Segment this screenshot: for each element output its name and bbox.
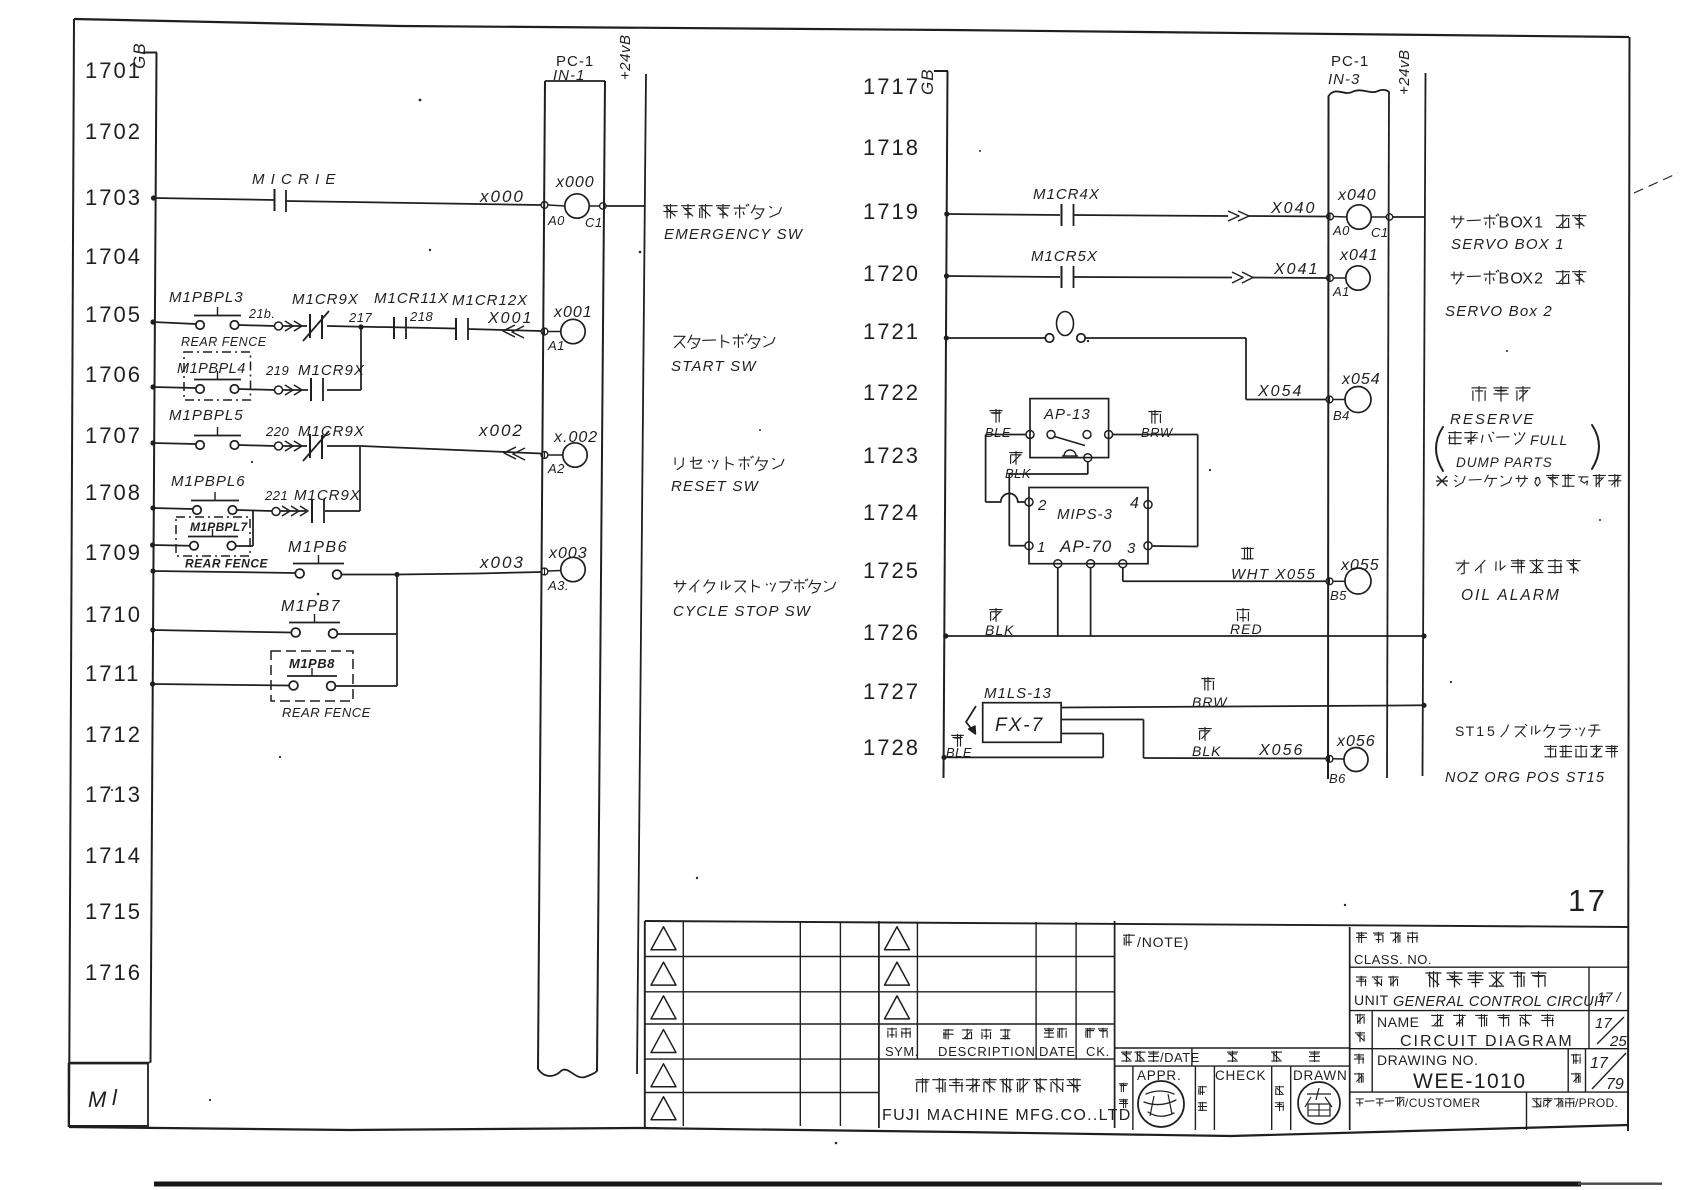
svg-text:M1CR9X: M1CR9X — [298, 423, 365, 440]
branch wire 1711 to 1710 node — [396, 634, 398, 686]
annotation start switch — [671, 334, 775, 375]
svg-text:1713: 1713 — [85, 782, 142, 807]
svg-text:A3.: A3. — [547, 578, 569, 593]
scratch artifact top-right margin — [1634, 173, 1678, 193]
svg-text:X001: X001 — [487, 310, 533, 327]
right +24VB supply line — [1423, 73, 1426, 776]
svg-text:PC-1: PC-1 — [1331, 53, 1369, 70]
pushbutton M1PBPL4 (dashed enclosure) — [177, 352, 251, 400]
chevron arrows X002 — [504, 447, 525, 460]
wire rung 1721 — [944, 335, 1246, 340]
input terminal X041 — [1327, 247, 1379, 299]
input terminal X040 — [1327, 187, 1424, 240]
svg-text:B: B — [1499, 270, 1510, 287]
svg-text:MIPS-3: MIPS-3 — [1057, 506, 1113, 523]
wire color label BRW (1727) — [1192, 677, 1228, 710]
wire color label BLE (AP-13) — [985, 409, 1011, 440]
svg-text:C1: C1 — [585, 215, 603, 230]
svg-text:x003: x003 — [548, 545, 588, 562]
svg-text:A1: A1 — [547, 338, 565, 353]
wire rung 1726 BLK/RED common — [943, 633, 1426, 638]
left bus GB rail — [143, 53, 157, 1063]
annotation servo box 1 — [1451, 214, 1587, 253]
loop switch symbol rung 1721 — [1045, 312, 1085, 343]
svg-text:4: 4 — [1130, 495, 1139, 512]
svg-text:M1CR9X: M1CR9X — [294, 487, 361, 504]
revision header DESCRIPTION — [938, 1029, 1036, 1059]
pushbutton M1PBPL3 — [169, 289, 267, 349]
svg-text:SERVO Box 2: SERVO Box 2 — [1445, 303, 1553, 320]
revision triangles right column — [885, 927, 910, 1019]
svg-text:M1PBPL6: M1PBPL6 — [171, 473, 246, 490]
svg-text:CLASS. NO.: CLASS. NO. — [1354, 952, 1432, 967]
date row — [1115, 1048, 1350, 1066]
right rung numbers 1717-1728 — [863, 74, 920, 760]
pushbutton M1PB6 — [288, 539, 348, 579]
svg-text:EMERGENCY SW: EMERGENCY SW — [664, 226, 804, 243]
svg-text:BRW: BRW — [1141, 425, 1174, 440]
NC contact M1CR9X rung 1707 — [298, 423, 365, 461]
svg-text:DUMP PARTS: DUMP PARTS — [1456, 455, 1553, 470]
wire MIPS-3 pin drops to 1726 — [1058, 568, 1091, 636]
svg-text:M1PB7: M1PB7 — [281, 598, 341, 615]
svg-text:M1CR4X: M1CR4X — [1033, 186, 1100, 203]
svg-text:CIRCUIT DIAGRAM: CIRCUIT DIAGRAM — [1400, 1033, 1574, 1050]
revision table right — [879, 921, 1115, 1128]
input terminal X056 — [1326, 733, 1376, 786]
svg-text:x000: x000 — [555, 174, 595, 191]
svg-text:221: 221 — [264, 488, 288, 503]
svg-text:X040: X040 — [1270, 200, 1316, 217]
limit switch arrow — [966, 706, 976, 734]
svg-text:+24vB: +24vB — [617, 35, 634, 80]
chevron arrows X001 — [503, 325, 524, 338]
chevron arrows rung 1720 — [1232, 272, 1253, 283]
PC-1 IN-3 module box — [1328, 90, 1389, 779]
right bus label GB — [918, 68, 937, 95]
wire rung 1710 — [150, 627, 397, 634]
title block outer lines — [645, 921, 1629, 1128]
branch wire 1708 to 1707 — [359, 447, 361, 511]
svg-text:CYCLE STOP SW: CYCLE STOP SW — [673, 603, 812, 620]
unit name cell — [1350, 967, 1629, 1010]
annotation cycle stop switch — [673, 579, 836, 620]
svg-text:REAR FENCE: REAR FENCE — [282, 705, 371, 720]
svg-text:DRAWING NO.: DRAWING NO. — [1377, 1052, 1478, 1068]
svg-text:1716: 1716 — [85, 960, 142, 985]
input terminal X003 — [541, 545, 588, 593]
annotation reset switch — [671, 456, 784, 495]
annotation nozzle clutch origin — [1445, 723, 1618, 786]
svg-text:x002: x002 — [478, 421, 524, 440]
wire junction circle 221 — [264, 488, 288, 516]
svg-text:1727: 1727 — [863, 679, 920, 704]
svg-text:1705: 1705 — [85, 302, 142, 327]
input terminal X054 — [1326, 371, 1381, 423]
contact M1CRIE — [252, 171, 336, 212]
chevron arrows rung 1707 — [285, 441, 302, 451]
svg-text:AP-70: AP-70 — [1059, 537, 1112, 556]
revision triangles left column — [651, 927, 676, 1120]
wire junction circle 21b — [248, 307, 283, 330]
svg-text:O: O — [1510, 270, 1522, 287]
svg-text:S: S — [1455, 723, 1464, 739]
svg-text:M1LS-13: M1LS-13 — [984, 685, 1052, 702]
svg-text:1721: 1721 — [863, 319, 920, 344]
annotation servo box 2 — [1445, 270, 1586, 320]
branch wire 1706 to 1705 — [360, 327, 362, 390]
svg-text:1718: 1718 — [863, 135, 920, 160]
svg-text:+24vB: +24vB — [1396, 50, 1413, 95]
NC contact M1CR9X rung 1705 — [292, 291, 359, 341]
svg-text:3: 3 — [1127, 540, 1136, 557]
NO contact M1CR11X — [374, 290, 449, 339]
svg-text:DESCRIPTION: DESCRIPTION — [938, 1044, 1036, 1059]
svg-text:x056: x056 — [1336, 733, 1376, 750]
wire BLE net AP-13 to MIPS-3 pin2 — [986, 435, 1026, 503]
chevron arrows rung 1705 — [285, 321, 302, 331]
svg-text:B5: B5 — [1330, 588, 1347, 603]
wire rung 1707 — [150, 440, 541, 453]
svg-text:M1PBPL5: M1PBPL5 — [169, 407, 244, 424]
input terminal X000 — [541, 174, 645, 230]
wire 1721 drop to X054 — [1246, 338, 1326, 400]
note area — [1115, 934, 1350, 1048]
svg-text:A2: A2 — [547, 461, 565, 476]
terminal box M1 — [69, 1064, 148, 1126]
chevron arrows rung 1706 — [285, 385, 302, 395]
svg-text:/NOTE): /NOTE) — [1137, 934, 1189, 950]
svg-text:B4: B4 — [1333, 408, 1350, 423]
limit switch box FX-7 — [983, 685, 1061, 742]
input terminal X055 — [1326, 557, 1380, 603]
svg-text:5: 5 — [1487, 723, 1495, 739]
NO contact M1CR4X — [1033, 186, 1100, 226]
svg-text:M1PBPL4: M1PBPL4 — [177, 361, 246, 377]
wire color label BLK (1726) — [985, 608, 1014, 638]
wire color label BLE (1728) — [946, 734, 972, 760]
svg-text:M1CR9X: M1CR9X — [292, 291, 359, 308]
annotation reserve — [1436, 386, 1599, 471]
svg-text:M1CR11X: M1CR11X — [374, 290, 449, 307]
svg-text:FULL: FULL — [1530, 432, 1568, 448]
svg-text:BLE: BLE — [946, 745, 972, 760]
svg-text:NAME: NAME — [1377, 1014, 1419, 1030]
svg-text:FX-7: FX-7 — [995, 715, 1044, 736]
svg-text:17: 17 — [1568, 883, 1607, 918]
svg-text:OIL ALARM: OIL ALARM — [1461, 587, 1561, 604]
wire rung 1719 — [944, 211, 1326, 216]
svg-text:x055: x055 — [1340, 557, 1380, 574]
svg-text:x040: x040 — [1337, 187, 1377, 204]
wire rung 1720 — [944, 273, 1326, 278]
svg-text:M1CR12X: M1CR12X — [452, 292, 528, 309]
right +24VB label — [1396, 50, 1413, 95]
wire WHT net MIPS-3 to X055 — [1123, 568, 1326, 582]
svg-text:25: 25 — [1609, 1033, 1627, 1050]
svg-text:X054: X054 — [1257, 383, 1303, 400]
svg-text:RED: RED — [1230, 621, 1263, 637]
company name Fuji Machine — [882, 1078, 1132, 1124]
svg-text:1710: 1710 — [85, 602, 142, 627]
svg-text:1712: 1712 — [85, 722, 142, 747]
svg-text:1: 1 — [1476, 723, 1484, 739]
svg-text:WHT X055: WHT X055 — [1231, 566, 1316, 583]
svg-text:M1PBPL3: M1PBPL3 — [169, 289, 244, 306]
svg-text:17 /: 17 / — [1597, 989, 1622, 1005]
svg-text:1722: 1722 — [863, 380, 920, 405]
wire color label BLK (1728) — [1192, 727, 1221, 759]
node 217 branch junction — [348, 310, 372, 330]
revision header SYM — [885, 1028, 919, 1059]
revision header CK — [1085, 1028, 1110, 1059]
svg-text:CHECK: CHECK — [1215, 1068, 1266, 1083]
svg-text:/CUSTOMER: /CUSTOMER — [1405, 1096, 1480, 1110]
chevron arrows rung 1719 — [1228, 211, 1249, 221]
svg-text:17: 17 — [1595, 1015, 1612, 1032]
svg-text:17: 17 — [1590, 1055, 1609, 1072]
svg-text:1: 1 — [1534, 214, 1543, 231]
svg-text:1719: 1719 — [863, 199, 920, 224]
wire branch M1PBPL7 — [150, 511, 253, 548]
svg-text:X: X — [1522, 270, 1533, 287]
svg-text:1708: 1708 — [85, 480, 142, 505]
wire color label BLK (AP-13) — [1005, 451, 1032, 481]
input terminal X001 — [541, 304, 593, 353]
svg-text:WEE-1010: WEE-1010 — [1413, 1070, 1527, 1093]
svg-text:1714: 1714 — [85, 843, 142, 868]
svg-text:IN-1: IN-1 — [553, 67, 585, 84]
left +24VB label — [617, 35, 634, 80]
left rung numbers 1701-1716 — [85, 58, 142, 985]
svg-text:79: 79 — [1606, 1076, 1624, 1093]
svg-text:FUJI MACHINE MFG.CO..LTD: FUJI MACHINE MFG.CO..LTD — [882, 1107, 1132, 1124]
pushbutton M1PBPL5 — [169, 407, 244, 449]
stamp seal APPR — [1138, 1081, 1184, 1127]
svg-text:1717: 1717 — [863, 74, 920, 99]
svg-text:1: 1 — [1037, 539, 1045, 556]
pushbutton M1PB8 (dashed enclosure) — [271, 651, 371, 720]
svg-text:218: 218 — [409, 309, 433, 324]
wire rung 1709 — [150, 568, 541, 574]
svg-text:1726: 1726 — [863, 620, 920, 645]
NO contact M1CR9X rung 1706 — [298, 362, 365, 401]
svg-text:219: 219 — [265, 363, 289, 378]
svg-text:x041: x041 — [1339, 247, 1379, 264]
NO contact M1CR12X — [452, 292, 528, 340]
wire BRW net AP-13 to MIPS-3 pin3 — [1113, 435, 1198, 547]
svg-text:B: B — [1499, 214, 1510, 231]
svg-text:1706: 1706 — [85, 362, 142, 387]
svg-text:/DATE: /DATE — [1160, 1050, 1200, 1065]
wire color label RED (1726) — [1230, 608, 1263, 637]
left line-number column box — [69, 1062, 149, 1064]
scan specks — [111, 99, 1601, 1145]
pushbutton M1PB7 — [281, 598, 341, 638]
wire rung 1711 — [150, 681, 397, 686]
svg-text:2: 2 — [1037, 497, 1047, 514]
PC-1 IN-1 label — [553, 53, 594, 84]
sensor box MIPS-3 / AP-70 — [1025, 488, 1152, 568]
approval stamp row — [1119, 927, 1350, 1130]
svg-text:X041: X041 — [1273, 261, 1319, 278]
svg-text:M: M — [88, 1087, 108, 1112]
svg-text:UNIT: UNIT — [1354, 992, 1389, 1008]
wire rung 1708 — [150, 505, 360, 511]
svg-text:X056: X056 — [1258, 742, 1304, 759]
svg-text:GB: GB — [130, 42, 149, 69]
svg-text:M1PBPL7: M1PBPL7 — [190, 520, 248, 534]
PC-1 IN-3 label — [1328, 53, 1369, 88]
scanner edge artifact band — [154, 1182, 1662, 1187]
svg-text:1702: 1702 — [85, 119, 142, 144]
svg-text:x054: x054 — [1341, 371, 1381, 388]
svg-text:21b.: 21b. — [248, 307, 275, 321]
svg-text:1711: 1711 — [85, 661, 140, 686]
drawing number cell — [1350, 1049, 1629, 1093]
wire BLE net rung 1728 — [941, 734, 1103, 761]
svg-text:2: 2 — [1534, 270, 1543, 287]
left +24VB supply line — [637, 74, 646, 1074]
svg-text:REAR FENCE: REAR FENCE — [185, 557, 269, 571]
svg-text:O: O — [1510, 214, 1522, 231]
svg-text:X: X — [1522, 214, 1533, 231]
svg-text:1707: 1707 — [85, 423, 142, 448]
wire BLK net AP-13 to MIPS-3 pin1 — [1009, 462, 1088, 546]
svg-text:GB: GB — [918, 68, 937, 95]
svg-text:SYM.: SYM. — [885, 1044, 919, 1059]
svg-text:RESERVE: RESERVE — [1450, 411, 1535, 428]
svg-text:1720: 1720 — [863, 261, 920, 286]
svg-text:220: 220 — [265, 424, 289, 439]
input terminal X002 — [541, 429, 598, 476]
svg-text:1715: 1715 — [85, 899, 142, 924]
svg-text:BRW: BRW — [1192, 694, 1228, 710]
svg-text:DRAWN: DRAWN — [1293, 1068, 1348, 1083]
pushbutton M1PBPL6 — [171, 473, 246, 514]
name cell circuit diagram — [1350, 1011, 1629, 1050]
svg-text:1703: 1703 — [85, 185, 142, 210]
svg-text:CK.: CK. — [1086, 1044, 1110, 1059]
svg-text:l: l — [112, 1085, 119, 1110]
svg-text:BLE: BLE — [985, 425, 1011, 440]
wire BLK net rung 1728 to X056 — [1061, 720, 1326, 759]
node junction x003 branch — [394, 572, 399, 577]
svg-text:M1PB6: M1PB6 — [288, 539, 348, 556]
svg-text:M I C R I E: M I C R I E — [252, 171, 336, 188]
NO contact M1CR9X rung 1708 — [294, 487, 361, 523]
svg-text:IN-3: IN-3 — [1328, 71, 1360, 88]
svg-text:START SW: START SW — [671, 358, 757, 375]
wire junction circle 219 — [265, 363, 289, 394]
annotation oil alarm — [1456, 559, 1581, 604]
svg-text:A0: A0 — [547, 213, 565, 228]
wire color label BRW (AP-13) — [1141, 410, 1174, 440]
svg-text:NOZ ORG POS ST15: NOZ ORG POS ST15 — [1445, 770, 1605, 786]
PC-1 IN-1 module box — [538, 81, 605, 1077]
annotation emergency stop — [663, 204, 803, 243]
wire rung 1705 — [150, 319, 541, 331]
svg-text:x001: x001 — [553, 304, 593, 321]
svg-text:BLK: BLK — [985, 622, 1014, 638]
pushbutton M1PBPL7 (dash-dot enclosure) — [176, 517, 269, 571]
wire junction circle 220 — [265, 424, 289, 450]
class number cell — [1350, 932, 1629, 967]
svg-text:/PROD.: /PROD. — [1575, 1096, 1618, 1110]
svg-text:BLK: BLK — [1192, 743, 1221, 759]
svg-text:A0: A0 — [1332, 223, 1350, 238]
svg-text:SERVO BOX 1: SERVO BOX 1 — [1451, 236, 1565, 253]
svg-text:217: 217 — [348, 310, 372, 325]
revision header DATE — [1039, 1028, 1076, 1059]
branch wire 1710 to x003 node — [396, 575, 398, 635]
svg-text:1704: 1704 — [85, 244, 142, 269]
svg-text:x003: x003 — [479, 553, 525, 572]
stamp seal DRAWN — [1298, 1082, 1340, 1124]
svg-text:1728: 1728 — [863, 735, 920, 760]
svg-text:x.002: x.002 — [553, 429, 598, 446]
svg-text:AP-13: AP-13 — [1043, 406, 1091, 423]
svg-text:DATE: DATE — [1039, 1044, 1076, 1059]
svg-text:A1: A1 — [1332, 284, 1350, 299]
wire BRW net rung 1727 — [1061, 703, 1427, 708]
right bus GB rail — [934, 71, 948, 778]
annotation sequencer shorting note — [1436, 474, 1621, 487]
svg-text:T: T — [1466, 723, 1475, 739]
svg-text:M1CR5X: M1CR5X — [1031, 248, 1098, 265]
wire color label WHT — [1231, 547, 1316, 583]
svg-text:REAR FENCE: REAR FENCE — [181, 335, 267, 349]
svg-text:1725: 1725 — [863, 558, 920, 583]
svg-text:x000: x000 — [479, 187, 525, 206]
wire rung 1706 — [150, 384, 361, 390]
svg-text:C1: C1 — [1371, 225, 1389, 240]
svg-text:B6: B6 — [1329, 771, 1346, 786]
relay box AP-13 — [1026, 399, 1113, 462]
NO contact M1CR5X — [1031, 248, 1098, 288]
svg-text:1723: 1723 — [863, 443, 920, 468]
wire rung 1703 — [151, 195, 541, 205]
svg-text:M1CR9X: M1CR9X — [298, 362, 365, 379]
svg-text:M1PB8: M1PB8 — [289, 656, 335, 671]
customer cell — [1356, 1092, 1618, 1130]
svg-text:RESET SW: RESET SW — [671, 478, 760, 495]
chevron arrows rung 1708 — [282, 506, 308, 516]
revision table left — [645, 921, 879, 1128]
svg-text:1709: 1709 — [85, 540, 142, 565]
svg-text:1724: 1724 — [863, 500, 920, 525]
left bus label GB — [130, 42, 149, 69]
svg-text:GENERAL CONTROL CIRCUIT: GENERAL CONTROL CIRCUIT — [1393, 994, 1608, 1010]
